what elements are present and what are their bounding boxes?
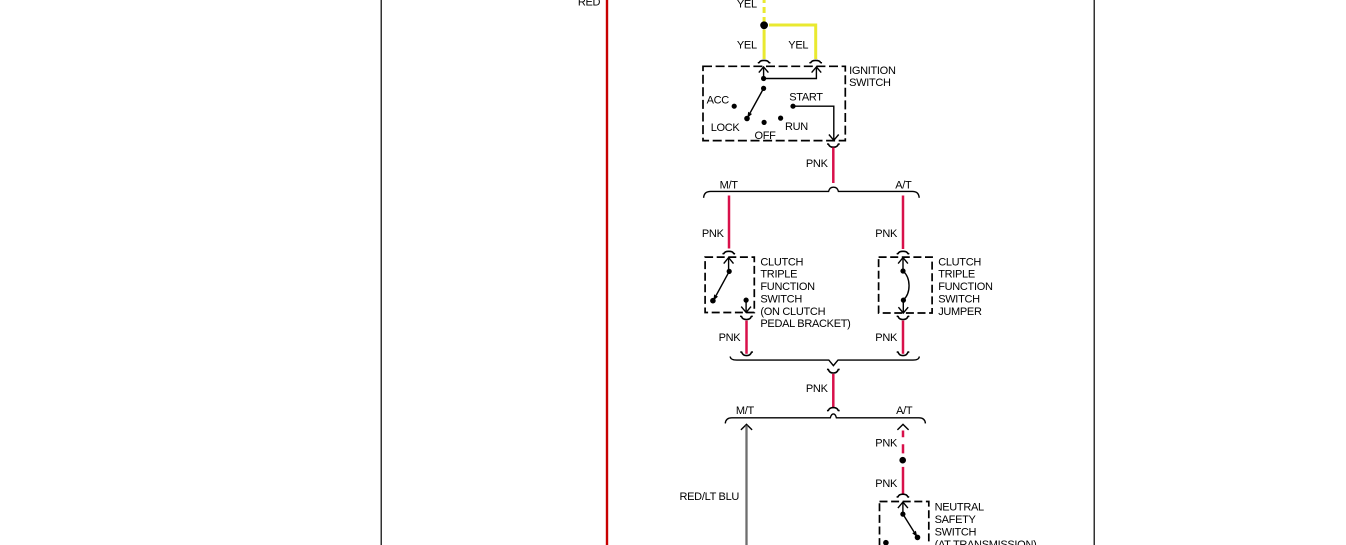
svg-text:SAFETY: SAFETY [935,514,977,526]
svg-text:SWITCH: SWITCH [760,293,802,305]
svg-text:OFF: OFF [755,130,777,142]
svg-text:FUNCTION: FUNCTION [938,281,993,293]
svg-text:YEL: YEL [737,40,757,52]
svg-text:PEDAL BRACKET): PEDAL BRACKET) [760,318,850,330]
svg-text:SWITCH: SWITCH [938,293,980,305]
svg-text:M/T: M/T [720,180,739,192]
svg-text:RED/LT BLU: RED/LT BLU [680,491,740,503]
svg-text:M/T: M/T [736,405,755,417]
svg-text:SWITCH: SWITCH [849,77,891,89]
svg-text:TRIPLE: TRIPLE [938,269,975,281]
svg-text:CLUTCH: CLUTCH [938,256,981,268]
svg-text:CLUTCH: CLUTCH [760,256,803,268]
svg-text:RED: RED [578,0,601,9]
svg-text:JUMPER: JUMPER [938,306,982,318]
svg-text:TRIPLE: TRIPLE [760,269,797,281]
svg-text:PNK: PNK [875,332,898,344]
svg-text:(ON CLUTCH: (ON CLUTCH [760,306,825,318]
svg-text:FUNCTION: FUNCTION [760,281,815,293]
svg-text:YEL: YEL [788,40,808,52]
svg-text:RUN: RUN [785,121,808,133]
svg-text:PNK: PNK [702,228,725,240]
svg-text:SWITCH: SWITCH [935,526,977,538]
svg-text:YEL: YEL [737,0,757,10]
svg-text:ACC: ACC [707,95,730,107]
svg-text:LOCK: LOCK [711,122,741,134]
svg-text:PNK: PNK [875,437,898,449]
svg-text:PNK: PNK [875,228,898,240]
svg-text:PNK: PNK [806,158,829,170]
svg-text:(AT TRANSMISSION): (AT TRANSMISSION) [935,539,1037,545]
svg-text:START: START [789,91,823,103]
svg-text:A/T: A/T [895,180,912,192]
svg-text:PNK: PNK [719,332,742,344]
svg-text:NEUTRAL: NEUTRAL [935,502,984,514]
svg-text:A/T: A/T [896,405,913,417]
svg-text:IGNITION: IGNITION [849,65,896,77]
svg-text:PNK: PNK [806,383,829,395]
svg-text:PNK: PNK [875,478,898,490]
